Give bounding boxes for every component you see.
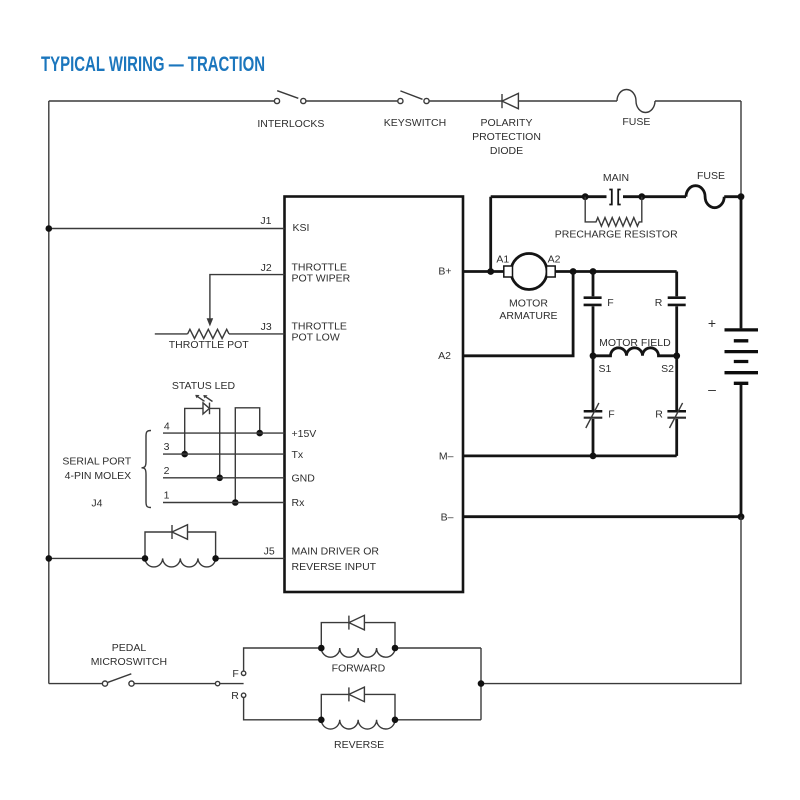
svg-text:J1: J1 bbox=[260, 215, 271, 227]
svg-text:POT LOW: POT LOW bbox=[292, 332, 340, 344]
svg-text:F: F bbox=[608, 409, 614, 421]
node LED anode on Tx bbox=[181, 451, 188, 458]
coil reverse bbox=[321, 720, 395, 729]
wire armature to field caps bbox=[555, 270, 677, 273]
diode across J5 coil bbox=[145, 525, 216, 559]
node main left bbox=[582, 193, 589, 200]
coil J5 suppressor bbox=[145, 558, 216, 567]
svg-text:TYPICAL WIRING — TRACTION: TYPICAL WIRING — TRACTION bbox=[41, 51, 265, 75]
resistor precharge bbox=[585, 197, 642, 227]
node J5 coil right bbox=[212, 555, 219, 562]
contactor MAIN bbox=[609, 190, 620, 205]
svg-text:MAIN DRIVER OR: MAIN DRIVER OR bbox=[292, 546, 380, 558]
svg-text:3: 3 bbox=[164, 441, 170, 453]
svg-text:J4: J4 bbox=[91, 498, 102, 510]
svg-text:S1: S1 bbox=[598, 363, 611, 375]
wire forward row bbox=[244, 648, 481, 671]
wire B+ riser bbox=[489, 197, 492, 272]
wire left trunk bbox=[48, 101, 50, 684]
svg-text:GND: GND bbox=[292, 473, 316, 485]
switch INTERLOCKS bbox=[274, 91, 306, 104]
wire A2 row bbox=[463, 272, 573, 356]
polarity protection diode bbox=[502, 93, 518, 108]
svg-text:MAIN: MAIN bbox=[603, 172, 629, 184]
svg-text:+: + bbox=[708, 315, 716, 331]
svg-text:POT WIPER: POT WIPER bbox=[292, 273, 351, 285]
wire pedal row bbox=[49, 683, 244, 685]
wire battery return bbox=[481, 517, 741, 684]
node J5 coil left bbox=[142, 555, 149, 562]
terminal R bbox=[241, 693, 245, 697]
motor armature M1 bbox=[504, 254, 555, 290]
wire reverse row bbox=[244, 698, 481, 720]
wire pin2 GND row bbox=[163, 477, 285, 479]
svg-text:KSI: KSI bbox=[293, 222, 310, 234]
switch KEYSWITCH bbox=[398, 91, 429, 104]
svg-text:INTERLOCKS: INTERLOCKS bbox=[257, 118, 324, 130]
svg-text:J5: J5 bbox=[264, 546, 275, 558]
svg-text:4-PIN MOLEX: 4-PIN MOLEX bbox=[65, 470, 132, 482]
wire B+ row to motor bbox=[463, 270, 504, 273]
resistor THROTTLE POT bbox=[188, 329, 229, 338]
svg-text:POLARITY: POLARITY bbox=[481, 117, 533, 129]
svg-text:A2: A2 bbox=[438, 350, 451, 362]
svg-text:SERIAL PORT: SERIAL PORT bbox=[62, 456, 131, 468]
svg-text:FUSE: FUSE bbox=[622, 116, 650, 128]
svg-text:B+: B+ bbox=[438, 266, 451, 278]
svg-text:FUSE: FUSE bbox=[697, 170, 725, 182]
svg-text:2: 2 bbox=[164, 465, 170, 477]
svg-text:J2: J2 bbox=[261, 262, 272, 274]
svg-text:B–: B– bbox=[441, 512, 454, 524]
node B+ riser junction bbox=[487, 268, 494, 275]
switch pedal microswitch bbox=[102, 674, 134, 686]
svg-text:FORWARD: FORWARD bbox=[332, 663, 386, 675]
svg-text:R: R bbox=[655, 297, 663, 309]
node A2 riser junction bbox=[570, 268, 577, 275]
node forward coil right bbox=[392, 645, 399, 652]
node rail to battery bbox=[738, 193, 745, 200]
svg-text:Rx: Rx bbox=[292, 497, 306, 509]
coil forward bbox=[321, 648, 395, 657]
svg-text:J3: J3 bbox=[261, 321, 272, 333]
wire pin4 +15V row bbox=[163, 432, 285, 434]
svg-text:S2: S2 bbox=[661, 363, 674, 375]
wire J3 throttle pot low bbox=[155, 333, 285, 335]
svg-text:PEDAL: PEDAL bbox=[112, 642, 147, 654]
wire B- row bbox=[463, 515, 741, 518]
svg-text:STATUS LED: STATUS LED bbox=[172, 380, 236, 392]
wire fwd/rev right leg bbox=[480, 648, 482, 720]
node return junction bbox=[478, 680, 485, 687]
svg-text:1: 1 bbox=[164, 490, 170, 502]
svg-text:MICROSWITCH: MICROSWITCH bbox=[91, 656, 167, 668]
svg-text:REVERSE: REVERSE bbox=[334, 739, 384, 751]
svg-text:4: 4 bbox=[164, 420, 170, 432]
fuse F1 bbox=[617, 90, 655, 113]
node B- battery junction bbox=[738, 513, 745, 520]
battery BT1 bbox=[725, 330, 759, 517]
capacitor R bbox=[668, 272, 686, 356]
svg-text:–: – bbox=[708, 381, 716, 397]
diode across forward coil bbox=[321, 615, 395, 648]
wire B+ rail to battery bbox=[491, 197, 741, 329]
wire top rail bbox=[49, 101, 741, 196]
node forward coil left bbox=[318, 645, 325, 652]
node cap F junction bbox=[590, 268, 597, 275]
svg-text:DIODE: DIODE bbox=[490, 145, 523, 157]
node S2 bbox=[673, 352, 680, 359]
terminal F bbox=[241, 671, 245, 675]
node J1 junction bbox=[46, 225, 53, 232]
svg-text:M–: M– bbox=[439, 451, 454, 463]
controller box U1 bbox=[285, 197, 464, 593]
svg-text:F: F bbox=[607, 297, 613, 309]
terminal open circle bbox=[215, 681, 219, 685]
svg-text:PRECHARGE RESISTOR: PRECHARGE RESISTOR bbox=[555, 229, 678, 241]
node M- field junction bbox=[590, 453, 597, 460]
svg-text:ARMATURE: ARMATURE bbox=[499, 310, 557, 322]
fuse F2 bbox=[686, 186, 724, 208]
svg-text:F: F bbox=[232, 668, 238, 680]
wiper arrow bbox=[207, 318, 214, 326]
wire pin1 Rx row bbox=[163, 502, 285, 504]
svg-text:THROTTLE POT: THROTTLE POT bbox=[169, 339, 250, 351]
jumper loop Rx to +15V bbox=[235, 408, 259, 503]
node main right bbox=[638, 193, 645, 200]
contact tip F bbox=[584, 356, 603, 456]
svg-text:R: R bbox=[231, 690, 239, 702]
wire J5 row bbox=[49, 557, 285, 559]
svg-text:MOTOR FIELD: MOTOR FIELD bbox=[599, 337, 671, 349]
svg-text:A2: A2 bbox=[548, 254, 561, 266]
node reverse coil left bbox=[318, 717, 325, 724]
contact tip R bbox=[667, 356, 686, 456]
brace serial port J4 bbox=[142, 431, 152, 508]
svg-text:+15V: +15V bbox=[292, 428, 317, 440]
node loop on Rx bbox=[232, 499, 239, 506]
capacitor F bbox=[584, 272, 602, 356]
wire J2 throttle pot wiper bbox=[210, 275, 285, 319]
svg-text:MOTOR: MOTOR bbox=[509, 298, 548, 310]
LED D1 status led bbox=[185, 395, 220, 478]
svg-text:A1: A1 bbox=[496, 254, 509, 266]
node loop on +15V bbox=[256, 430, 263, 437]
svg-text:PROTECTION: PROTECTION bbox=[472, 131, 541, 143]
wire M- row bbox=[463, 454, 677, 457]
diode across reverse coil bbox=[321, 687, 395, 720]
svg-text:KEYSWITCH: KEYSWITCH bbox=[384, 117, 446, 129]
svg-text:REVERSE INPUT: REVERSE INPUT bbox=[292, 561, 377, 573]
node reverse coil right bbox=[392, 717, 399, 724]
wire J1 KSI row bbox=[49, 228, 285, 230]
node S1 bbox=[590, 352, 597, 359]
wire pin3 Tx row bbox=[163, 453, 285, 455]
svg-text:Tx: Tx bbox=[292, 449, 304, 461]
node J5 trunk bbox=[46, 555, 53, 562]
coil motor field bbox=[593, 348, 677, 356]
svg-text:R: R bbox=[655, 409, 663, 421]
node LED cathode on GND bbox=[216, 475, 223, 482]
